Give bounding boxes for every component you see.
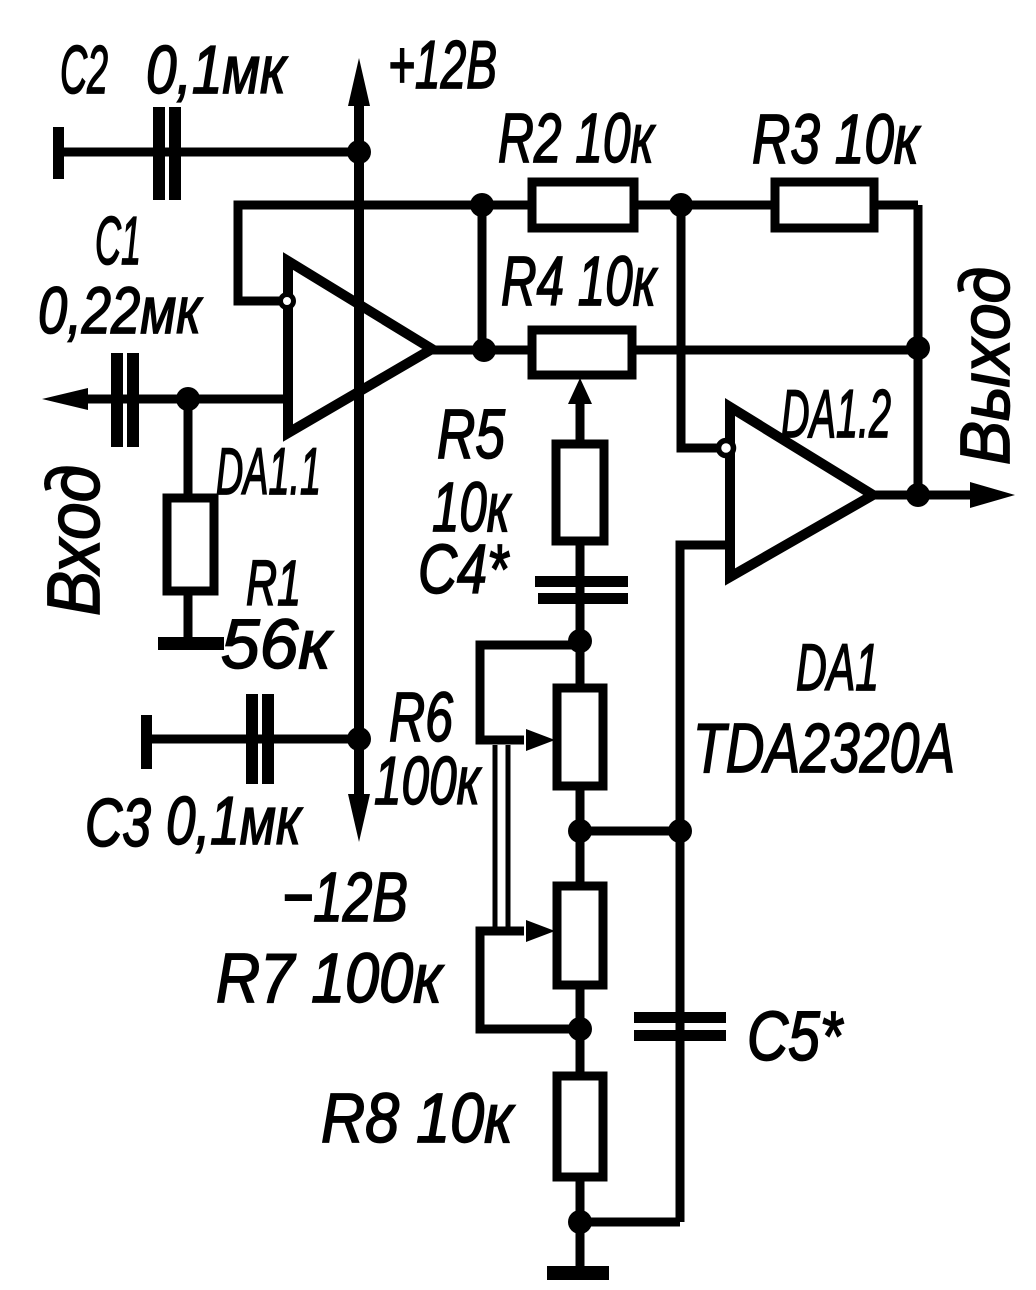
node input junction bbox=[176, 387, 200, 411]
label TDA2320A bbox=[693, 709, 955, 787]
svg-text:−12В: −12В bbox=[282, 858, 408, 936]
wire DA1.1 feedback loop bbox=[238, 205, 482, 308]
wire R6 wiper strap bbox=[480, 645, 580, 751]
resistor R5 bbox=[556, 444, 604, 541]
label C4* bbox=[418, 530, 510, 608]
label R6 bbox=[389, 678, 453, 756]
resistor R7 potentiometer bbox=[557, 886, 603, 1078]
label DA1 bbox=[796, 630, 879, 704]
node R6/R7 midpoint bbox=[568, 819, 692, 843]
capacitor C4 bbox=[535, 541, 628, 690]
node C3/-12V junction bbox=[347, 727, 371, 751]
capacitor C2 bbox=[53, 107, 359, 200]
label Vykhod output bbox=[946, 267, 1024, 465]
svg-text:TDA2320A: TDA2320A bbox=[693, 709, 955, 787]
label C2 value 0,1mk bbox=[146, 32, 288, 108]
wire R3 to output column bbox=[914, 205, 923, 495]
svg-text:DA1.1: DA1.1 bbox=[216, 434, 321, 508]
svg-text:R2 10к: R2 10к bbox=[498, 99, 656, 177]
label C5* bbox=[747, 997, 844, 1075]
label C2 bbox=[60, 32, 108, 108]
ground R1 bbox=[158, 637, 224, 650]
capacitor C3 bbox=[141, 694, 359, 784]
wire DA1.1 output to R4 row bbox=[432, 346, 918, 355]
node output junction bbox=[906, 483, 930, 507]
resistor R6 potentiometer bbox=[557, 688, 603, 888]
label R4 10k bbox=[501, 242, 658, 320]
label R5 value 10k bbox=[432, 468, 512, 546]
svg-text:Выход: Выход bbox=[946, 267, 1024, 465]
label R7 100k bbox=[216, 939, 445, 1017]
svg-text:R5: R5 bbox=[437, 395, 506, 473]
label DA1.1 bbox=[216, 434, 321, 508]
label C1 bbox=[95, 203, 141, 279]
label C3 value 0,1mk bbox=[166, 783, 303, 859]
resistor R2 bbox=[532, 182, 634, 228]
svg-text:C3: C3 bbox=[85, 785, 151, 861]
node R4 row / output column bbox=[906, 336, 930, 360]
power rail +12V/-12V vertical wire bbox=[348, 58, 370, 842]
label R5 bbox=[437, 395, 506, 473]
wire DA1.2 non-inverting input column bbox=[680, 545, 730, 1012]
svg-text:R4 10к: R4 10к bbox=[501, 242, 658, 320]
label R1 value 56k bbox=[221, 605, 334, 683]
node C4/R6 junction bbox=[568, 629, 592, 653]
label -12V bbox=[282, 858, 408, 936]
svg-text:DA1.2: DA1.2 bbox=[781, 376, 891, 452]
svg-text:R7 100к: R7 100к bbox=[216, 939, 445, 1017]
svg-text:C1: C1 bbox=[95, 203, 141, 279]
node R2/R3 junction bbox=[669, 193, 693, 217]
node C2/+12V junction bbox=[347, 140, 371, 164]
label C3 bbox=[85, 785, 151, 861]
node R8 bottom junction bbox=[568, 1210, 680, 1234]
svg-text:C4*: C4* bbox=[418, 530, 510, 608]
resistor R4 bbox=[532, 330, 632, 375]
op-amp U1 DA1.2 bbox=[730, 407, 873, 577]
capacitor C1 input bbox=[42, 353, 288, 447]
ground R8 bbox=[547, 1266, 609, 1280]
svg-text:0,1мк: 0,1мк bbox=[166, 783, 303, 859]
resistor R1 bbox=[167, 399, 214, 640]
svg-text:+12В: +12В bbox=[388, 27, 497, 103]
node feedback column top bbox=[470, 193, 496, 362]
label R3 10k bbox=[752, 100, 921, 178]
svg-text:Вход: Вход bbox=[32, 465, 115, 616]
svg-text:100к: 100к bbox=[374, 743, 482, 819]
wire R2 row bbox=[482, 201, 918, 210]
label R2 10k bbox=[498, 99, 656, 177]
label DA1.2 bbox=[781, 376, 891, 452]
capacitor C5 bbox=[634, 1008, 726, 1222]
op-amp U1 DA1.1 bbox=[288, 261, 432, 433]
label R6 value 100k bbox=[374, 743, 482, 819]
resistor R8 bbox=[557, 1076, 603, 1270]
svg-text:R3 10к: R3 10к bbox=[752, 100, 921, 178]
node R7/R8 junction bbox=[568, 1017, 592, 1041]
label Vkhod input bbox=[32, 465, 115, 616]
svg-text:C2: C2 bbox=[60, 32, 108, 108]
wire R7 wiper strap bbox=[480, 920, 580, 1029]
wire DA1.2 output bbox=[873, 482, 1015, 508]
svg-text:DA1: DA1 bbox=[796, 630, 879, 704]
label R8 10k bbox=[321, 1079, 516, 1157]
wiper arrow R4 from R5 bbox=[568, 378, 592, 446]
svg-text:0,22мк: 0,22мк bbox=[38, 273, 203, 347]
svg-text:0,1мк: 0,1мк bbox=[146, 32, 288, 108]
svg-text:C5*: C5* bbox=[747, 997, 844, 1075]
label +12V bbox=[388, 27, 497, 103]
mechanical gang link R6-R7 bbox=[495, 745, 508, 928]
resistor R3 bbox=[775, 182, 874, 228]
wire DA1.2 inverting input bbox=[681, 205, 734, 456]
svg-text:56к: 56к bbox=[221, 605, 334, 683]
label C1 value 0,22mk bbox=[38, 273, 203, 347]
svg-text:R8 10к: R8 10к bbox=[321, 1079, 516, 1157]
label R1 bbox=[246, 547, 301, 619]
